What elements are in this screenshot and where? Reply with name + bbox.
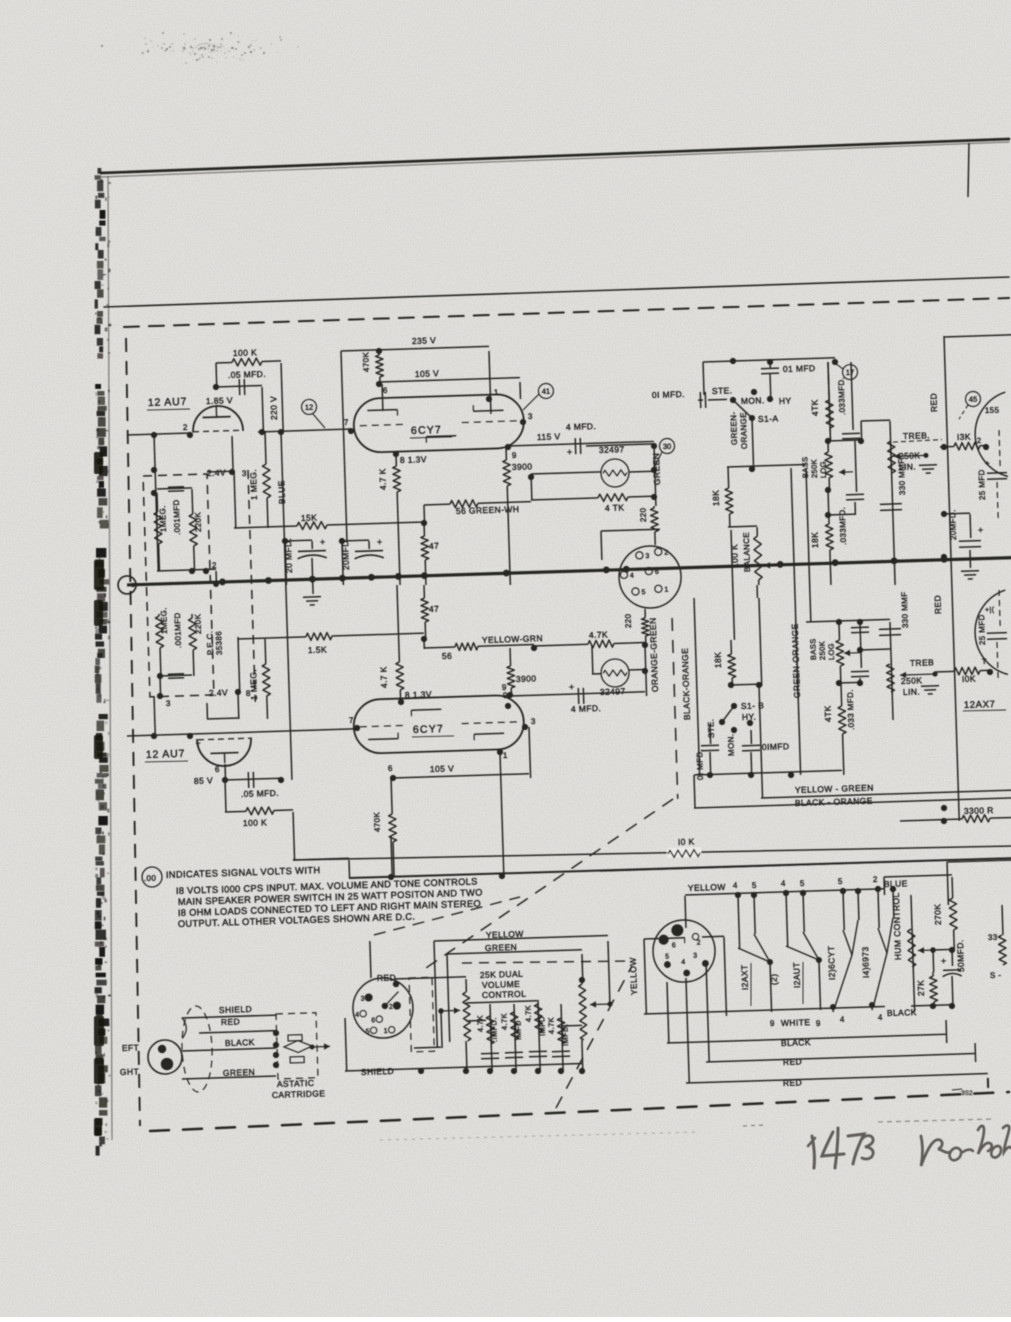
svg-text:6: 6 — [655, 569, 660, 576]
wire GREEN-ORANGE vertical 2 — [806, 468, 811, 622]
svg-text:2: 2 — [664, 549, 669, 556]
resistor 4.7K upper cathode — [395, 454, 397, 466]
svg-text:1: 1 — [664, 586, 669, 593]
wire green to pot top — [447, 950, 582, 954]
svg-text:BLUE: BLUE — [276, 480, 287, 504]
svg-text:5: 5 — [641, 589, 646, 596]
wire 4TK column top — [828, 362, 830, 441]
wire PEC lower left vertical — [154, 696, 155, 736]
resistor 27K — [932, 972, 934, 976]
bus junction node — [891, 557, 898, 564]
wire BLUE long vertical — [281, 432, 292, 780]
svg-text:5: 5 — [752, 881, 757, 890]
wire switch arm down — [752, 418, 754, 469]
svg-text:+: + — [985, 459, 990, 468]
svg-text:3: 3 — [166, 699, 171, 708]
svg-text:S -: S - — [990, 971, 1002, 980]
resistor 18K balance top — [727, 467, 730, 488]
wire GREEN-ORANGE vertical 1 — [791, 468, 801, 775]
wire RED rail bus crossing — [941, 554, 947, 560]
ground TREB upper — [919, 464, 937, 467]
resistor 3300R right — [900, 819, 962, 821]
wire .05MFD to plate row — [262, 387, 263, 432]
svg-text:47: 47 — [429, 604, 440, 614]
svg-text:56 GREEN-WH: 56 GREEN-WH — [456, 504, 520, 516]
capacitor .001MFD PEC upper — [157, 488, 192, 489]
svg-text:YELLOW-GRN: YELLOW-GRN — [482, 633, 543, 645]
tube 6CY7 lower envelope — [353, 695, 525, 754]
svg-text:1 MEG.: 1 MEG. — [248, 669, 259, 701]
bus junction node — [309, 576, 316, 583]
resistor 3900 lower — [509, 648, 512, 666]
svg-text:RED: RED — [783, 1056, 802, 1067]
svg-text:6: 6 — [388, 764, 393, 773]
resistor 4.7K lower cathode — [397, 585, 399, 662]
svg-text:9: 9 — [770, 1019, 775, 1028]
bus junction node — [368, 574, 375, 581]
resistor 100K lower — [225, 780, 226, 812]
capacitor 01MFD S1-B left — [709, 724, 712, 744]
capacitor 25MFD lower — [999, 590, 1000, 628]
wire to yellow-green turn — [759, 686, 763, 798]
svg-text:HUM CONTROL: HUM CONTROL — [891, 892, 903, 960]
wire heater bottom rail (WHITE row) — [644, 1006, 885, 1014]
svg-text:4.7K: 4.7K — [589, 629, 608, 640]
svg-text:GREEN: GREEN — [651, 453, 662, 486]
svg-text:I: I — [684, 938, 687, 945]
svg-text:0IMFD: 0IMFD — [762, 741, 790, 752]
dashed diagonal lower — [552, 966, 637, 1108]
svg-text:270K: 270K — [932, 903, 943, 925]
volume socket circle — [352, 977, 414, 1039]
svg-text:BLACK: BLACK — [781, 1037, 811, 1048]
svg-text:3300 R: 3300 R — [964, 805, 994, 816]
resistor 4TK upper — [531, 498, 598, 500]
grid pin 8 lower with 2.4V — [235, 689, 241, 695]
wire 20MFD1 to bus — [285, 541, 286, 585]
handwritten word Rochole — [921, 1136, 950, 1166]
switch S1-B arm — [731, 703, 737, 709]
faint dotted fragments bottom — [743, 1125, 765, 1126]
svg-text:S1- B: S1- B — [741, 700, 765, 711]
svg-text:S1-A: S1-A — [758, 413, 779, 424]
svg-text:I0K: I0K — [962, 674, 976, 684]
bus junction node — [777, 561, 784, 568]
RC branch 4 (4.7K 1MFD) — [561, 1004, 563, 1071]
svg-text:2: 2 — [697, 940, 702, 947]
svg-text:ORANGE: ORANGE — [739, 412, 749, 449]
svg-text:IMFD.: IMFD. — [560, 1024, 570, 1047]
svg-text:220: 220 — [639, 507, 648, 522]
svg-text:3: 3 — [531, 717, 536, 726]
svg-text:6: 6 — [672, 942, 677, 949]
resistor 470K upper — [378, 351, 380, 355]
bus junction node — [421, 572, 428, 579]
svg-text:RED: RED — [928, 393, 939, 412]
svg-text:330 MMF.: 330 MMF. — [897, 457, 907, 496]
wire green to cartridge — [182, 1076, 276, 1079]
bus junction node — [219, 578, 226, 585]
dashed diagonal upper — [415, 799, 678, 972]
capacitor 20MFD second — [342, 541, 343, 585]
svg-text:4TK: 4TK — [809, 399, 820, 416]
svg-text:9: 9 — [512, 451, 517, 460]
pin 6 node lower tube — [224, 764, 227, 780]
svg-text:2: 2 — [212, 561, 217, 570]
capacitor 01MFD S1-B center — [750, 730, 752, 744]
wire RED line run 1 — [706, 961, 709, 1062]
svg-text:+: + — [978, 525, 984, 535]
svg-text:1: 1 — [503, 751, 508, 760]
svg-text:56: 56 — [442, 651, 453, 661]
svg-text:YELLOW: YELLOW — [688, 882, 726, 893]
svg-text:6CY7: 6CY7 — [411, 424, 442, 437]
paper edge top border line — [101, 139, 1009, 173]
svg-text:4: 4 — [878, 1013, 883, 1022]
bus junction node — [503, 570, 510, 577]
svg-text:1: 1 — [494, 388, 499, 397]
tube 12AU7 lower half-dome — [197, 738, 252, 767]
svg-text:35386: 35386 — [214, 631, 224, 656]
capacitor .033MFD upper1 — [851, 362, 853, 430]
resistor 4TK lower tone — [839, 681, 860, 684]
svg-text:+: + — [377, 537, 383, 547]
svg-text:I2)6CYT: I2)6CYT — [826, 946, 837, 981]
tube 12AX7 arc upper (page-cut) — [974, 392, 1008, 477]
wire plate up to 100K — [215, 363, 218, 387]
svg-text:CARTRIDGE: CARTRIDGE — [272, 1088, 326, 1100]
svg-text:3900: 3900 — [516, 673, 537, 684]
node plate junction — [213, 384, 219, 390]
svg-text:.00: .00 — [144, 874, 157, 883]
resistor 3900 upper — [505, 447, 507, 460]
resistor 47 lower — [423, 585, 425, 598]
svg-text:18K: 18K — [810, 532, 821, 549]
svg-text:220 V: 220 V — [268, 396, 279, 421]
svg-text:4.7K: 4.7K — [546, 1017, 556, 1034]
resistor 270K — [951, 877, 954, 898]
resistor 470K lower — [391, 778, 392, 814]
svg-text:BLACK: BLACK — [225, 1037, 255, 1048]
RC branch 2 (1MFD 4.7K) — [514, 1004, 516, 1071]
svg-text:85 V: 85 V — [194, 775, 213, 786]
top-left pencil speckles — [199, 49, 202, 52]
RC branch 3 (1MFD 4.7K) — [538, 1000, 540, 1071]
svg-text:3: 3 — [528, 412, 533, 421]
resistor 1MEG in PEC upper — [156, 493, 159, 512]
svg-text:HY: HY — [779, 396, 792, 406]
svg-text:BLACK: BLACK — [887, 1007, 917, 1018]
wire S1-B cap row — [694, 770, 842, 775]
wire shield row — [345, 1064, 582, 1071]
svg-text:105 V: 105 V — [430, 763, 455, 774]
bus junction node — [265, 577, 272, 584]
grid dashes inside 6CY7 lower — [360, 725, 406, 726]
wire socket to yellow line — [370, 941, 371, 978]
wire black to cartridge — [182, 1048, 276, 1051]
wire BLACK line run — [667, 982, 669, 1043]
wire TREB column lower — [890, 622, 893, 720]
wire pot bottom to shield row — [581, 1044, 584, 1071]
svg-text:20MFD: 20MFD — [340, 540, 351, 570]
wire junction row 441 — [828, 440, 861, 441]
wire branch tops row — [466, 1001, 537, 1003]
plate lower 12AU7 — [223, 753, 225, 763]
wire plate row upper-12AU7 — [258, 429, 351, 432]
svg-text:MON.: MON. — [726, 733, 736, 756]
phono jack body — [147, 1039, 182, 1074]
note circle .00 — [142, 867, 163, 888]
svg-text:9: 9 — [816, 1019, 821, 1028]
svg-text:GREEN-: GREEN- — [729, 411, 739, 445]
volume wiper arrow — [590, 1003, 610, 1006]
svg-text:1.85 V: 1.85 V — [206, 395, 233, 406]
resistor 1MEG in PEC lower — [158, 614, 160, 616]
capacitor .01MFD top center — [769, 362, 771, 368]
svg-text:12 AU7: 12 AU7 — [148, 396, 188, 409]
wire 18K column from above (S1-B) — [731, 530, 734, 640]
resistor 220 lower vertical — [644, 616, 646, 618]
capacitor .05MFD coupling upper — [216, 386, 262, 387]
wire 115V row to green top — [586, 444, 654, 446]
wire socket frame right — [724, 937, 726, 1016]
svg-text:115 V: 115 V — [537, 431, 561, 442]
resistor 13K row — [940, 446, 954, 448]
svg-text:.033MFD.: .033MFD. — [838, 507, 848, 546]
svg-text:.033MFD.: .033MFD. — [837, 377, 847, 416]
svg-text:RED: RED — [377, 972, 396, 983]
plate upper 12AU7 — [215, 405, 217, 417]
capacitor 330MMF lower — [879, 628, 901, 631]
DIN speaker socket middle — [618, 545, 682, 609]
svg-text:RED: RED — [221, 1016, 240, 1027]
svg-text:YELLOW: YELLOW — [628, 957, 639, 995]
pin 7 node lower 6CY7 — [354, 725, 360, 731]
capacitor .033MFD lower1 — [860, 622, 861, 668]
svg-text:GHT: GHT — [120, 1066, 139, 1077]
svg-text:01 MFD: 01 MFD — [783, 363, 816, 374]
wire yellow left drop — [434, 941, 437, 1048]
resistor 18K S1-B — [730, 640, 732, 654]
svg-text:+: + — [569, 682, 575, 692]
heater 12AX7 — [735, 892, 741, 898]
wire yellow heater lead up — [685, 896, 686, 928]
svg-text:6: 6 — [383, 386, 388, 395]
capacitor .05MFD lower — [225, 778, 281, 780]
svg-text:220K: 220K — [193, 613, 203, 634]
svg-text:SHIELD: SHIELD — [219, 1004, 252, 1015]
svg-text:1: 1 — [384, 1028, 389, 1035]
YELLOW-GREEN lead wire — [761, 790, 1011, 798]
svg-text:STE.: STE. — [706, 719, 716, 739]
heater 6CY7 pair — [840, 888, 846, 894]
dashed enclosure vertical — [672, 618, 678, 799]
resistor 220K PEC lower — [191, 614, 193, 618]
resistor 100K plate load upper — [216, 361, 232, 364]
wire lamp right lower — [642, 642, 648, 648]
svg-text:33: 33 — [988, 933, 998, 942]
svg-text:12 AU7: 12 AU7 — [146, 748, 186, 761]
capacitor 50MFD electrolytic — [951, 950, 954, 966]
cable bundle dashed oval — [181, 1006, 214, 1093]
wire balance bottom down — [756, 585, 758, 598]
svg-text:1MEG.: 1MEG. — [158, 505, 168, 532]
wire lower tone top row — [806, 619, 890, 622]
wire shield/red to cartridge — [182, 1015, 276, 1018]
wire RED line run 2 — [686, 978, 689, 1083]
svg-text:5: 5 — [665, 954, 670, 961]
svg-text:470K: 470K — [361, 351, 371, 372]
svg-text:+: + — [320, 537, 326, 547]
BLACK-ORANGE lead wire — [694, 775, 695, 808]
resistor 1MEG lower grid leak — [264, 639, 267, 664]
dashed diagonal stub left — [373, 897, 521, 935]
left scan smudge strip — [98, 168, 102, 174]
svg-text:9: 9 — [502, 683, 507, 692]
wire lamp left to junction — [531, 472, 601, 474]
wire 115V row from pin9 — [508, 441, 654, 446]
pin 9 node lower — [505, 703, 511, 709]
svg-text:2.4V: 2.4V — [207, 467, 226, 478]
resistor 56 YELLOW-GRN row — [424, 646, 455, 649]
svg-text:4.7K: 4.7K — [523, 1005, 533, 1022]
svg-text:5: 5 — [800, 879, 805, 888]
wire second return line — [600, 858, 1011, 871]
potentiometer BASS 250K LOG lower — [838, 622, 841, 640]
svg-text:41: 41 — [542, 387, 551, 396]
svg-text:TREB.: TREB. — [903, 430, 930, 441]
svg-text:IMFD: IMFD — [513, 1020, 523, 1040]
resistor 220 upper vertical — [653, 506, 655, 508]
wire 18K to balance pot — [728, 525, 757, 528]
svg-text:6CY7: 6CY7 — [413, 723, 444, 736]
P.E.C. 35386 dashed module box — [143, 474, 214, 697]
svg-text:LIN.: LIN. — [903, 687, 921, 698]
wire 105V row lower — [393, 774, 529, 778]
svg-text:I2AUT: I2AUT — [791, 962, 802, 988]
pin 7 node upper 6CY7 — [348, 428, 354, 434]
svg-text:2: 2 — [389, 1004, 394, 1011]
svg-text:100 K: 100 K — [233, 347, 258, 358]
svg-text:4: 4 — [355, 1012, 360, 1019]
wire box-right to 27K region — [723, 1015, 725, 1017]
svg-text:STE.: STE. — [712, 385, 733, 396]
svg-text:12: 12 — [305, 403, 314, 412]
handwritten 1473 — [812, 1136, 814, 1168]
capacitor .033MFD lower2 — [851, 670, 869, 673]
svg-text:220: 220 — [624, 613, 633, 628]
svg-text:6: 6 — [215, 765, 220, 774]
svg-text:5: 5 — [366, 1028, 371, 1035]
power socket circle — [652, 919, 716, 983]
svg-text:4: 4 — [630, 573, 635, 580]
pin 3 upper 6CY7 — [520, 419, 526, 425]
top right corner tick — [968, 143, 969, 197]
wire PEC bottom row to bus — [157, 569, 216, 571]
wire hum bottom row — [911, 1005, 952, 1006]
svg-text:220K: 220K — [193, 511, 203, 532]
wire hum to 27K — [932, 950, 935, 972]
svg-text:I3K: I3K — [957, 432, 971, 442]
svg-text:2: 2 — [977, 436, 982, 445]
wire TREB column upper — [890, 421, 895, 585]
dashed channel boundary vertical x248 — [248, 470, 255, 702]
svg-text:+|(: +|( — [985, 607, 995, 614]
svg-text:.001MFD: .001MFD — [172, 499, 182, 535]
bus junction node — [832, 559, 839, 566]
svg-text:32497: 32497 — [600, 686, 626, 697]
node 281 on plate row — [278, 429, 284, 435]
cathode bars 6CY7 lower — [368, 738, 398, 741]
svg-text:4 MFD.: 4 MFD. — [571, 703, 602, 714]
wire black-orange upper vertical — [694, 598, 700, 775]
grid dashes inside 6CY7 upper — [360, 424, 406, 425]
switch S1-A contacts — [730, 397, 736, 403]
lower green wire from socket — [644, 609, 646, 616]
potentiometer TREB 250K LIN lower — [886, 664, 894, 692]
svg-text:2: 2 — [873, 875, 878, 884]
svg-text:5: 5 — [838, 877, 843, 886]
capacitor 25MFD upper — [999, 430, 1000, 468]
ground TREB lower — [921, 685, 939, 688]
bottom long dashed border — [150, 1092, 1009, 1131]
svg-text:3: 3 — [645, 553, 650, 560]
wire row below S1-A — [727, 464, 806, 466]
tube 12AX7 arc lower (page-cut) — [974, 590, 1008, 675]
svg-text:4: 4 — [681, 959, 686, 966]
node circle 30 — [659, 438, 674, 453]
wire socket frame left — [644, 939, 646, 1014]
wire left vertical x154 — [154, 435, 158, 571]
resistor 220K PEC upper — [191, 489, 194, 514]
svg-text:20MFD.: 20MFD. — [948, 509, 958, 540]
resistor 56 GREEN-WH row — [424, 503, 450, 506]
svg-text:2.4V: 2.4V — [209, 687, 228, 698]
node circle 17 — [842, 364, 857, 379]
resistor 4TK upper tone — [828, 362, 829, 400]
bus junction node — [623, 566, 630, 573]
svg-text:BALANCE: BALANCE — [742, 532, 752, 572]
resistor 4.7K row lower plate — [534, 644, 588, 646]
svg-text:6: 6 — [371, 1017, 376, 1024]
wire treb feed upper — [860, 421, 863, 441]
wire grid node down to 15K row — [234, 472, 236, 528]
svg-text:3: 3 — [242, 469, 247, 478]
left volume wiper — [441, 1009, 460, 1012]
resistor 10K lower row — [935, 670, 954, 673]
svg-text:EFT: EFT — [122, 1043, 140, 1054]
socket frame lines — [601, 529, 660, 531]
svg-text:4.7 K: 4.7 K — [378, 666, 389, 688]
inner top solid line — [104, 277, 1009, 307]
svg-text:3: 3 — [361, 996, 366, 1003]
potentiometer 25K dual volume left section — [463, 992, 471, 1041]
svg-text:4: 4 — [733, 881, 738, 890]
inner top dashed line — [124, 298, 1009, 327]
wire 100K to return line — [293, 812, 295, 860]
balance wiper arrow — [764, 564, 780, 567]
capacitor 20MFD right — [944, 512, 970, 515]
dashed box right of volume socket — [409, 977, 434, 1052]
bus junction node — [395, 573, 402, 580]
svg-text:155: 155 — [985, 406, 1000, 415]
potentiometer 100K balance — [756, 527, 758, 536]
cathode bars 6CY7 upper — [367, 409, 397, 412]
node circle 45 — [965, 391, 980, 406]
ground symbol below 20MFD — [303, 596, 321, 599]
svg-text:0I MFD.: 0I MFD. — [652, 389, 685, 400]
lamp 32497 lower — [601, 659, 630, 688]
